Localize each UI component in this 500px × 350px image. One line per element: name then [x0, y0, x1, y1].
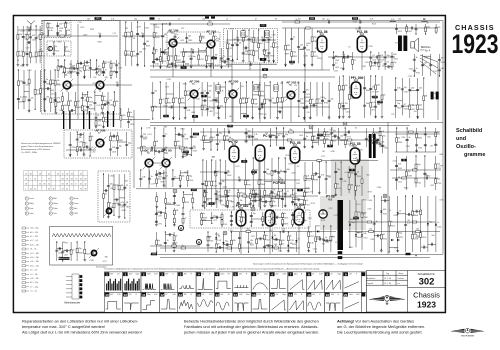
resistor mb7409 — [246, 231, 251, 233]
wire vert right — [442, 21, 444, 255]
capacitor i129 — [231, 45, 234, 46]
svg-text:19: 19 — [307, 293, 311, 297]
resistor x423 — [330, 236, 332, 241]
svg-text:50µ: 50µ — [170, 56, 173, 58]
wire x38 — [427, 196, 429, 252]
wire n5 — [224, 82, 226, 119]
resistor o219 — [264, 99, 266, 104]
ground — [271, 204, 274, 207]
ground — [224, 204, 227, 207]
capacitor hb2189 — [359, 27, 360, 30]
resistor a10 — [35, 52, 37, 57]
wire k11 — [370, 52, 372, 70]
capacitor j149 — [297, 47, 300, 48]
wire bg1 — [120, 108, 122, 128]
label chip — [309, 17, 315, 20]
svg-text:R356: R356 — [370, 239, 374, 241]
capacitor afd90 — [116, 148, 119, 149]
wire u36 — [338, 128, 340, 145]
wire k24 — [438, 54, 440, 76]
tube — [255, 145, 264, 161]
svg-text:129: 129 — [391, 114, 394, 116]
capacitor x3t445 — [385, 199, 386, 202]
svg-text:0,1: 0,1 — [84, 106, 87, 108]
wire p6 — [328, 82, 330, 116]
ground — [155, 205, 158, 208]
wire ih — [226, 39, 276, 41]
svg-text:L871: L871 — [306, 204, 310, 206]
svg-text:1n: 1n — [279, 177, 281, 179]
capacitor vt52 — [61, 65, 62, 68]
svg-text:C23: C23 — [323, 241, 326, 243]
wire v2 — [64, 60, 66, 78]
wire j5 — [311, 28, 313, 66]
wire w5 — [81, 92, 83, 111]
svg-text:739: 739 — [105, 211, 108, 213]
svg-text:R65: R65 — [250, 243, 253, 245]
resistor u5b325 — [264, 191, 266, 196]
inductor top179 — [390, 20, 396, 23]
wire u5b2 — [252, 158, 254, 207]
node — [183, 65, 184, 66]
svg-text:20ms: 20ms — [147, 294, 151, 296]
wire psb1 — [201, 212, 203, 226]
voltage table — [24, 171, 88, 191]
node — [113, 215, 114, 216]
svg-text:75: 75 — [75, 178, 77, 180]
svg-text:AF 200: AF 200 — [228, 79, 238, 83]
capacitor k2175 — [438, 70, 441, 71]
tube PY 88 — [319, 210, 327, 218]
label PFL 200 — [351, 76, 363, 82]
tube PCL 85 — [350, 148, 359, 164]
wire x37 — [420, 196, 422, 252]
node — [103, 173, 104, 174]
svg-text:C171: C171 — [213, 220, 217, 222]
svg-text:C103: C103 — [118, 67, 122, 69]
svg-text:L174: L174 — [356, 204, 360, 206]
svg-text:R282: R282 — [292, 244, 296, 246]
wire cv5 — [84, 242, 86, 258]
node — [180, 186, 181, 187]
capacitor s3274 — [140, 136, 143, 137]
svg-text:Rö2: Rö2 — [354, 80, 359, 82]
wire u61 — [304, 162, 306, 194]
svg-text:Hellig.: Hellig. — [29, 203, 34, 205]
wire u34 — [323, 128, 325, 148]
svg-text:C695: C695 — [269, 230, 273, 232]
wire x36 — [412, 196, 414, 252]
svg-text:R230: R230 — [217, 195, 221, 197]
svg-text:6,8: 6,8 — [209, 91, 212, 93]
node — [248, 29, 249, 30]
resistor g106 — [198, 55, 200, 60]
resistor u7343 — [361, 179, 363, 184]
wire tie — [175, 133, 183, 135]
resistor s2269 — [182, 148, 184, 153]
ground — [136, 63, 139, 66]
wire u53 — [211, 160, 213, 207]
resistor uh518 — [113, 185, 115, 190]
svg-text:L735: L735 — [147, 127, 151, 129]
ground — [309, 116, 312, 119]
capacitor n209 — [217, 92, 220, 93]
svg-text:C361: C361 — [427, 136, 431, 138]
svg-text:PY 88: PY 88 — [326, 195, 335, 199]
wire u33 — [317, 128, 319, 145]
node — [385, 51, 386, 52]
node — [258, 29, 259, 30]
svg-text:R831: R831 — [98, 42, 102, 44]
svg-text:C561: C561 — [279, 107, 283, 109]
transistor — [89, 248, 99, 258]
wire o5 — [264, 82, 266, 119]
wire tie — [119, 197, 125, 199]
node — [84, 77, 85, 78]
svg-text:L523: L523 — [107, 62, 111, 64]
svg-text:586: 586 — [21, 81, 24, 83]
label PCL 86 — [317, 30, 328, 36]
wire tie — [202, 220, 212, 222]
wire tie — [265, 245, 273, 247]
svg-text:10k: 10k — [300, 44, 303, 46]
svg-text:50µ: 50µ — [128, 142, 131, 144]
wire u35 — [331, 128, 333, 145]
ground — [328, 116, 331, 119]
svg-text:330: 330 — [59, 30, 62, 32]
resistor mb1396 — [289, 131, 294, 133]
svg-text:36: 36 — [355, 128, 357, 130]
node — [96, 59, 97, 60]
node — [58, 59, 59, 60]
capacitor u2288 — [245, 141, 248, 142]
label chip — [211, 16, 215, 18]
wire tc1 — [53, 42, 55, 55]
resistor ps0475 — [173, 218, 175, 223]
wire rc25 — [435, 156, 437, 190]
wire q2 — [342, 76, 344, 115]
capacitor u5b324 — [263, 171, 266, 172]
resistor a1 — [17, 35, 19, 40]
svg-text:5k: 5k — [208, 56, 210, 58]
wire mb3 — [300, 160, 378, 162]
wire u31 — [304, 128, 306, 148]
wire tie — [111, 135, 118, 137]
svg-text:1k: 1k — [293, 37, 295, 39]
resistor tz119 — [125, 32, 127, 37]
svg-text:850: 850 — [354, 218, 357, 220]
svg-text:95: 95 — [80, 188, 82, 190]
svg-text:1k: 1k — [226, 18, 228, 20]
svg-text:1k: 1k — [130, 119, 132, 121]
capacitor tb18 — [56, 32, 59, 33]
resistor o221 — [276, 98, 278, 103]
svg-text:10: 10 — [71, 203, 73, 205]
svg-text:R522: R522 — [178, 134, 182, 136]
svg-text:61: 61 — [80, 183, 82, 185]
ground — [252, 204, 255, 207]
wire u22 — [252, 128, 254, 146]
svg-text:25µ: 25µ — [219, 133, 222, 135]
svg-text:L115: L115 — [337, 188, 341, 190]
resistor ps481 — [173, 236, 175, 241]
svg-text:L237: L237 — [25, 47, 29, 49]
wire tie — [84, 146, 90, 148]
resistor rc1379 — [416, 133, 418, 138]
svg-text:L311: L311 — [417, 183, 421, 185]
capacitor cv509 — [61, 252, 64, 253]
svg-text:70p: 70p — [293, 51, 296, 53]
svg-text:C616: C616 — [127, 37, 131, 39]
wire i7 — [258, 30, 260, 59]
ground — [415, 149, 418, 152]
capacitor nt212 — [204, 99, 205, 102]
svg-text:0,1: 0,1 — [37, 89, 40, 91]
svg-text:2: 2 — [161, 272, 163, 276]
svg-text:12k: 12k — [239, 43, 242, 45]
svg-text:984: 984 — [263, 114, 266, 116]
label chip — [260, 58, 267, 61]
svg-text:R801: R801 — [351, 98, 355, 100]
capacitor mid2t376 — [298, 198, 299, 201]
svg-text:220: 220 — [67, 30, 70, 32]
wire o7 — [276, 82, 278, 116]
capacitor u5bt333 — [275, 170, 276, 173]
wire ps02 — [165, 208, 167, 226]
resistor u5b329 — [278, 191, 280, 196]
svg-text:Oszillo-: Oszillo- — [456, 144, 476, 150]
svg-text:68: 68 — [85, 178, 87, 180]
capacitor st266 — [160, 172, 161, 175]
tube PCL 85 — [290, 147, 299, 163]
wire tie — [69, 110, 76, 112]
wire bus mid — [150, 122, 443, 125]
svg-text:f 3 — 5k: f 3 — 5k — [30, 249, 36, 251]
svg-text:2n: 2n — [205, 136, 207, 138]
svg-text:8n: 8n — [168, 98, 170, 100]
wire tie — [117, 141, 126, 143]
resistor psb466 — [292, 220, 294, 225]
resistor ps2491 — [238, 244, 240, 249]
resistor psb463 — [282, 213, 284, 218]
svg-text:20ms: 20ms — [264, 274, 268, 276]
svg-text:L113: L113 — [365, 62, 369, 64]
capacitor s2268 — [181, 136, 184, 137]
wire VHF module box — [42, 21, 121, 115]
filter — [274, 85, 278, 91]
capacitor rc2385 — [395, 166, 398, 167]
wire rc14 — [424, 128, 426, 152]
svg-text:L111: L111 — [294, 147, 298, 149]
resistor u3298 — [323, 139, 325, 144]
svg-text:C756: C756 — [243, 54, 247, 56]
capacitor mb3403 — [357, 159, 358, 162]
ground — [334, 193, 337, 196]
wire tie — [265, 180, 272, 182]
capacitor afd88 — [109, 149, 112, 150]
ground — [220, 65, 223, 68]
wire tuner box 2 — [47, 41, 71, 56]
capacitor mid2t374 — [255, 199, 256, 202]
svg-text:1k: 1k — [184, 134, 186, 136]
wire k03 — [351, 52, 353, 70]
svg-text:588: 588 — [105, 77, 108, 79]
svg-text:2,1: 2,1 — [165, 116, 168, 118]
svg-text:L424: L424 — [299, 135, 303, 137]
svg-text:20ms: 20ms — [349, 294, 353, 296]
resistor mb9416 — [274, 247, 279, 249]
capacitor w61 — [81, 97, 84, 98]
svg-text:0,1: 0,1 — [204, 91, 207, 93]
svg-text:C511: C511 — [42, 56, 46, 58]
svg-text:C22: C22 — [181, 28, 184, 30]
wire CRT fan — [420, 55, 438, 120]
wire tr02 — [406, 24, 408, 34]
resistor u3300 — [331, 141, 333, 146]
svg-text:10k: 10k — [188, 36, 191, 38]
svg-text:R699: R699 — [419, 109, 423, 111]
wire rc13 — [416, 128, 418, 152]
node — [206, 47, 207, 48]
ground — [155, 223, 158, 226]
resistor s265 — [187, 176, 189, 181]
legend circled symbols — [25, 197, 79, 215]
wire g5 — [183, 48, 185, 65]
wire tc2 — [64, 42, 66, 55]
svg-text:C144: C144 — [92, 70, 96, 72]
svg-text:336: 336 — [382, 66, 385, 68]
svg-text:140: 140 — [373, 97, 376, 99]
resistor i128 — [226, 44, 228, 49]
svg-text:R576: R576 — [37, 94, 41, 96]
svg-text:C562: C562 — [248, 39, 252, 41]
svg-text:220: 220 — [369, 229, 372, 231]
ground — [107, 111, 110, 114]
svg-text:8n: 8n — [273, 190, 275, 192]
wire cv4 — [76, 242, 78, 261]
wire j4 — [304, 28, 306, 66]
svg-text:15k: 15k — [261, 37, 264, 39]
wire tie — [253, 193, 259, 195]
svg-text:R236: R236 — [349, 146, 353, 148]
resistor rc2392 — [435, 179, 437, 184]
capacitor u2t290 — [249, 135, 250, 138]
svg-text:1n: 1n — [203, 213, 205, 215]
svg-text:50µ: 50µ — [276, 194, 279, 196]
wire tie — [272, 170, 279, 172]
capacitor f95 — [185, 38, 188, 39]
wire q22 — [370, 76, 372, 115]
svg-text:R887: R887 — [193, 137, 197, 139]
svg-text:269: 269 — [42, 33, 45, 35]
capacitor uh522 — [123, 187, 126, 188]
wire tie — [428, 243, 436, 245]
svg-text:8n: 8n — [218, 244, 220, 246]
resistor al29 — [34, 90, 36, 95]
svg-text:70p: 70p — [261, 104, 264, 106]
svg-text:C431: C431 — [404, 91, 408, 93]
transformer flyback — [338, 200, 344, 250]
ground — [202, 204, 205, 207]
svg-text:L457: L457 — [125, 54, 129, 56]
svg-text:5n: 5n — [158, 18, 160, 20]
svg-text:39: 39 — [66, 178, 68, 180]
svg-text:Gemessen mit Spannungsmesser 1: Gemessen mit Spannungsmesser 10MΩ/V — [21, 142, 61, 145]
resistor psb460 — [262, 217, 264, 222]
caption Schaltbild und Oszillogramme — [456, 128, 485, 158]
capacitor gt111 — [157, 58, 158, 61]
svg-text:47: 47 — [287, 191, 289, 193]
svg-text:8: 8 — [75, 183, 76, 185]
capacitor ih144 — [237, 39, 238, 42]
capacitor top177 — [328, 21, 329, 24]
svg-text:R363: R363 — [188, 40, 192, 42]
capacitor u2289 — [251, 136, 254, 137]
svg-text:R198: R198 — [395, 43, 399, 45]
node — [424, 155, 425, 156]
wire sync links — [149, 163, 166, 188]
svg-text:4,7k: 4,7k — [372, 102, 375, 104]
ground — [83, 258, 86, 261]
wire tie — [324, 240, 331, 242]
svg-text:33: 33 — [43, 183, 45, 185]
wire bg2 — [128, 108, 130, 128]
capacitor psb452 — [210, 218, 213, 219]
wire tie — [272, 216, 283, 218]
svg-text:302: 302 — [419, 277, 435, 288]
node — [439, 75, 440, 76]
wire tie — [155, 151, 164, 153]
svg-text:Farbe: Farbe — [29, 213, 33, 215]
node — [55, 69, 56, 70]
svg-text:L982: L982 — [220, 61, 224, 63]
ground — [380, 249, 383, 252]
capacitor x3t446 — [409, 213, 410, 216]
node — [168, 47, 169, 48]
capacitor u3t304 — [335, 135, 336, 138]
svg-text:53: 53 — [62, 183, 64, 185]
svg-text:30%: 30% — [96, 18, 100, 20]
svg-text:R979: R979 — [412, 105, 416, 107]
svg-text:739: 739 — [280, 83, 283, 85]
resistor x421 — [315, 237, 317, 242]
svg-text:L257: L257 — [329, 208, 333, 210]
capacitor al28 — [28, 100, 31, 101]
svg-text:C305: C305 — [437, 227, 441, 229]
svg-text:0,5: 0,5 — [387, 62, 390, 64]
wire x33 — [388, 196, 390, 252]
svg-text:C448: C448 — [313, 248, 317, 250]
svg-text:1k: 1k — [290, 236, 292, 238]
node — [220, 159, 221, 160]
svg-text:C486: C486 — [277, 111, 281, 113]
label PCL 85 — [290, 141, 301, 147]
svg-text:50µ: 50µ — [243, 217, 246, 219]
node — [216, 251, 217, 252]
resistor bf75 — [103, 117, 105, 122]
node — [237, 59, 238, 60]
capacitor psb459 — [250, 221, 253, 222]
wire w4 — [74, 92, 76, 114]
node — [417, 117, 418, 118]
svg-text:R440: R440 — [404, 187, 408, 189]
svg-text:e 15 — 330: e 15 — 330 — [30, 253, 39, 255]
svg-text:70p: 70p — [272, 201, 275, 203]
svg-text:12k: 12k — [274, 244, 277, 246]
node — [94, 91, 95, 92]
wire tie — [385, 66, 392, 68]
svg-text:560: 560 — [177, 141, 180, 143]
